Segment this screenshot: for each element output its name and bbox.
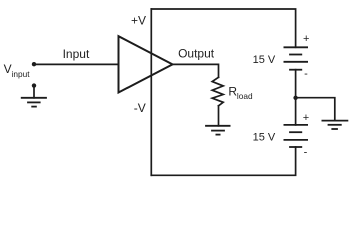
battery B2 (bottom 15 V) — [284, 125, 307, 147]
ground: load ground — [206, 126, 230, 135]
svg-text:15 V: 15 V — [253, 131, 276, 143]
wire: resistor to ground — [218, 106, 220, 126]
wire: bottom battery to bottom rail back to -V — [151, 147, 295, 175]
ground: supply midpoint ground — [322, 121, 347, 129]
node: V_input source dot — [32, 62, 36, 66]
svg-text:Input: Input — [63, 47, 90, 61]
wire: top rail to positive battery — [151, 9, 295, 47]
svg-text:+: + — [303, 112, 309, 124]
wire: stem from reference dot to ground — [33, 86, 35, 98]
wire: input from source node to op-amp — [34, 63, 119, 65]
node: input ground reference dot — [32, 83, 36, 87]
svg-text:load: load — [237, 91, 253, 101]
wire: vertical supply rail through op-amp (+V / -V) — [150, 9, 152, 175]
svg-text:-: - — [304, 146, 308, 158]
svg-text:Output: Output — [178, 47, 215, 61]
svg-text:-: - — [304, 68, 308, 80]
svg-text:15 V: 15 V — [253, 54, 276, 66]
resistor R_load zigzag — [212, 77, 223, 106]
wire: between batteries with midpoint junction — [295, 70, 297, 125]
battery B1 (top 15 V) — [284, 47, 307, 69]
svg-text:+: + — [303, 33, 309, 45]
svg-text:+V: +V — [131, 14, 146, 28]
op-amp U1 triangle — [119, 36, 173, 92]
svg-text:-V: -V — [134, 101, 146, 115]
svg-text:input: input — [12, 69, 31, 79]
node: supply midpoint junction — [293, 96, 297, 100]
ground: input reference ground — [22, 98, 46, 107]
svg-text:V: V — [4, 62, 12, 76]
wire: junction to right ground — [296, 98, 335, 121]
wire: output from op-amp to load — [173, 64, 219, 77]
